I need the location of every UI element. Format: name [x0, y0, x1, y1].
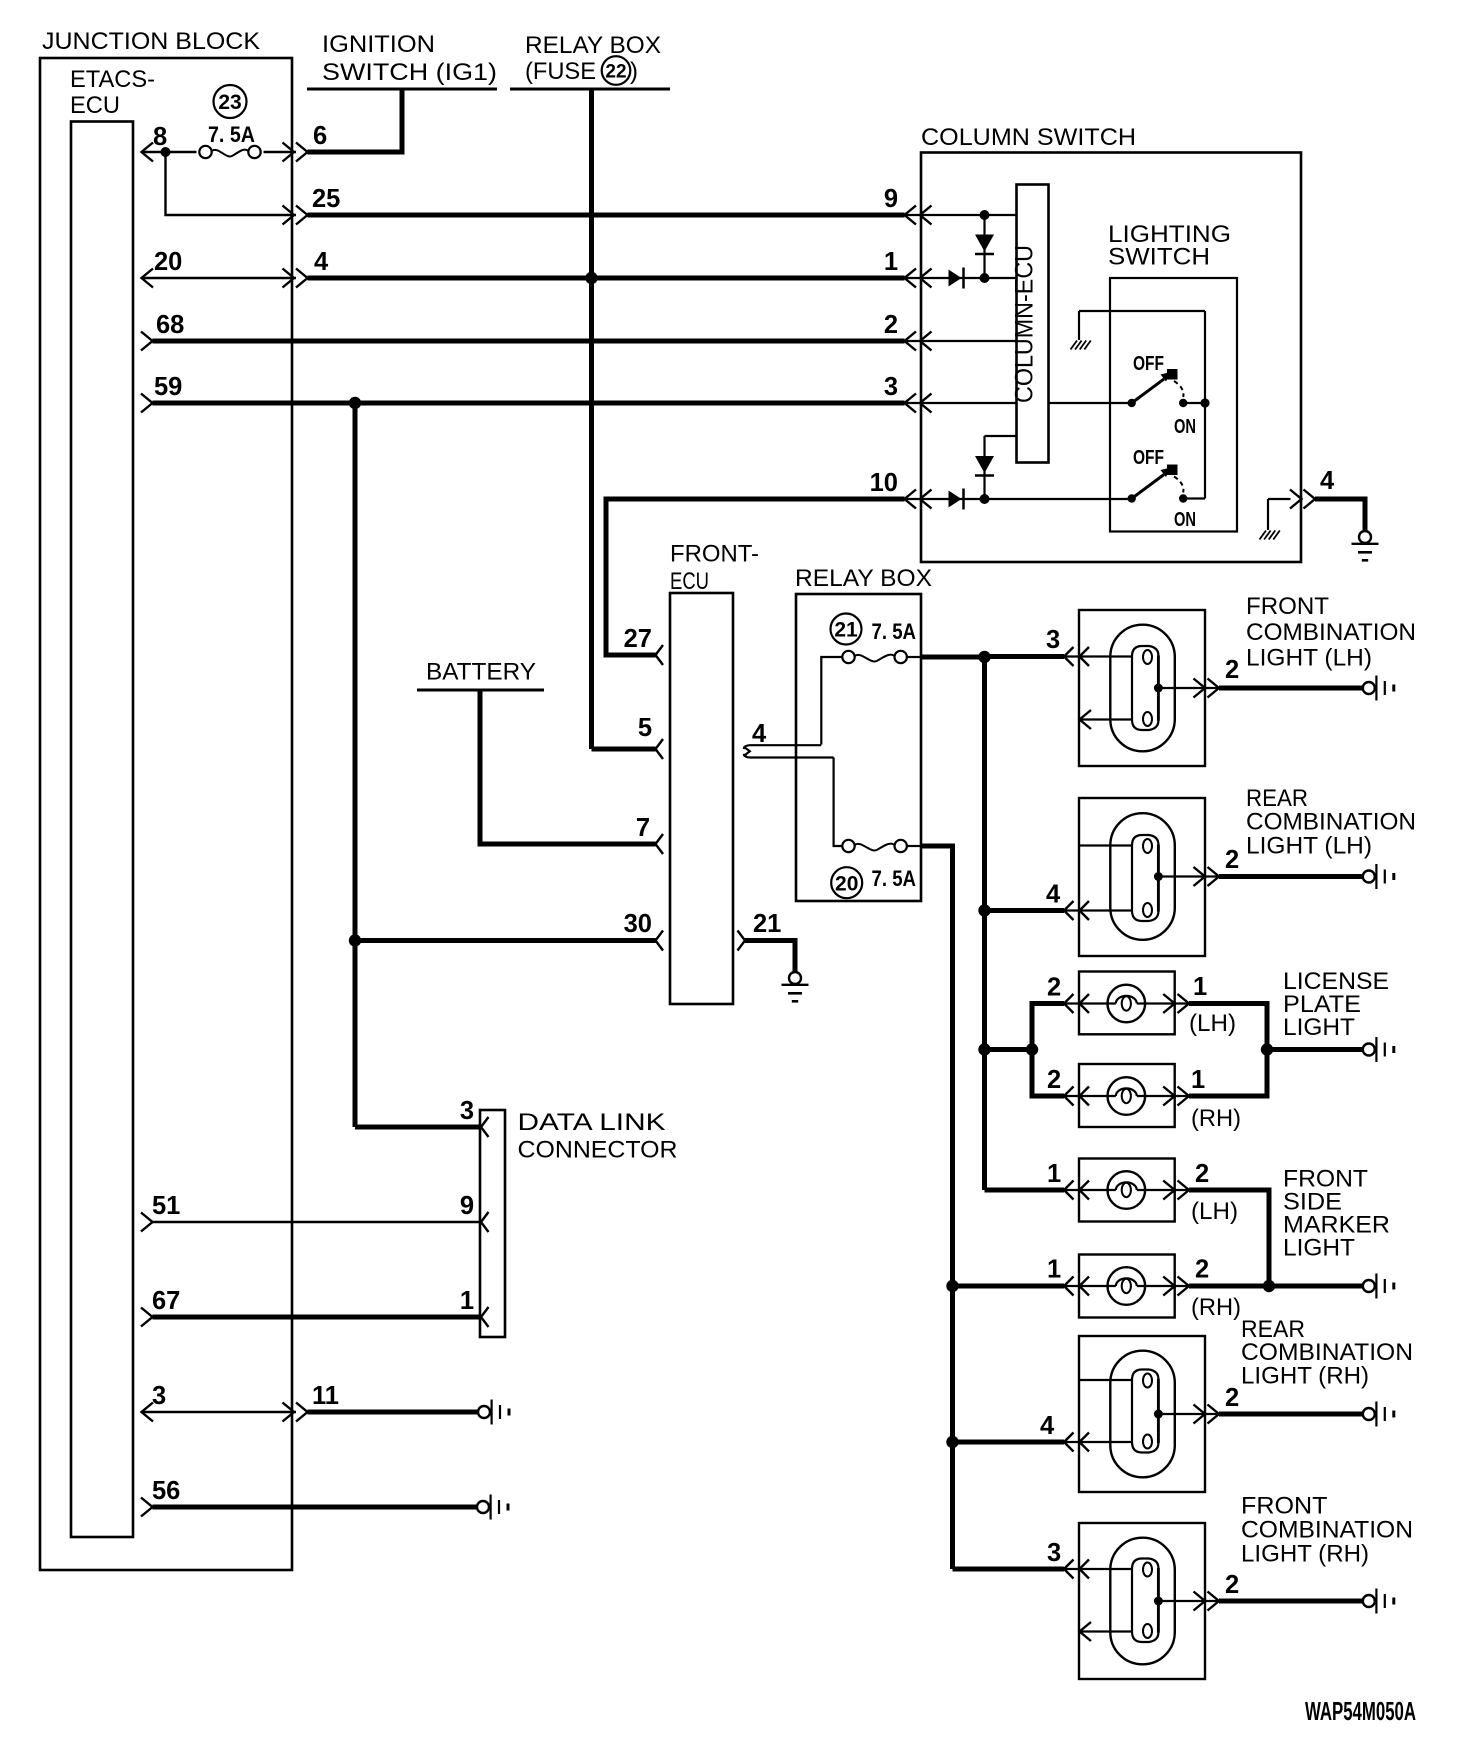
svg-text:11: 11 — [312, 1382, 339, 1410]
svg-text:3: 3 — [152, 1382, 166, 1410]
svg-text:COMBINATION: COMBINATION — [1241, 1517, 1413, 1544]
svg-text:30: 30 — [624, 910, 652, 938]
svg-text:2: 2 — [1225, 1571, 1239, 1599]
svg-text:LIGHT: LIGHT — [1283, 1235, 1355, 1262]
svg-text:1: 1 — [884, 248, 898, 276]
internal ground G1 — [1078, 311, 1080, 340]
svg-text:2: 2 — [884, 311, 898, 339]
svg-text:LIGHT: LIGHT — [1283, 1014, 1355, 1041]
svg-text:(RH): (RH) — [1191, 1105, 1241, 1132]
svg-text:7. 5A: 7. 5A — [872, 866, 917, 891]
fuse 20 7.5A — [831, 867, 862, 898]
svg-text:(FUSE: (FUSE — [525, 58, 596, 85]
license LH lamp — [1032, 1004, 1064, 1050]
svg-text:68: 68 — [156, 311, 184, 339]
svg-text:LIGHT (LH): LIGHT (LH) — [1246, 645, 1372, 672]
svg-text:CONNECTOR: CONNECTOR — [518, 1137, 678, 1164]
svg-text:3: 3 — [884, 373, 898, 401]
svg-text:ECU: ECU — [670, 568, 709, 595]
svg-text:1: 1 — [1193, 973, 1207, 1001]
svg-text:COLUMN SWITCH: COLUMN SWITCH — [921, 124, 1136, 151]
svg-text:10: 10 — [870, 469, 898, 497]
svg-text:6: 6 — [313, 122, 327, 150]
license RH lamp — [1032, 1050, 1064, 1097]
svg-text:21: 21 — [753, 910, 781, 938]
pin 10 to front-ecu 27 wire — [606, 499, 905, 655]
svg-text:FRONT-: FRONT- — [670, 541, 759, 568]
svg-text:7. 5A: 7. 5A — [872, 619, 917, 644]
svg-text:59: 59 — [154, 373, 182, 401]
svg-text:4: 4 — [1040, 1412, 1055, 1440]
relay box fuse22 drop wire — [589, 89, 594, 749]
svg-text:1: 1 — [460, 1287, 474, 1315]
pin 4 ground tap — [1260, 531, 1267, 540]
svg-text:1: 1 — [1047, 1160, 1061, 1188]
front side marker RH — [946, 1280, 958, 1292]
svg-text:8: 8 — [153, 123, 167, 151]
pin 59 trunk down / pin 30 wire — [349, 934, 361, 946]
svg-text:(LH): (LH) — [1189, 1010, 1236, 1037]
svg-text:21: 21 — [834, 619, 858, 642]
svg-text:(RH): (RH) — [1191, 1294, 1241, 1321]
svg-text:56: 56 — [152, 1477, 180, 1505]
svg-text:3: 3 — [1047, 1539, 1061, 1567]
svg-text:22: 22 — [605, 61, 626, 82]
svg-text:OFF: OFF — [1133, 447, 1164, 469]
svg-text:COMBINATION: COMBINATION — [1246, 809, 1416, 836]
svg-text:WAP54M050A: WAP54M050A — [1305, 1698, 1416, 1726]
svg-text:RELAY BOX: RELAY BOX — [525, 32, 661, 59]
svg-text:ON: ON — [1174, 509, 1196, 531]
svg-text:25: 25 — [312, 185, 340, 213]
fuse 23 7.5A — [214, 85, 247, 118]
svg-text:): ) — [630, 58, 638, 85]
svg-text:BATTERY: BATTERY — [426, 659, 536, 686]
fuse 20 output wire / trunk B — [907, 845, 921, 847]
svg-text:2: 2 — [1225, 846, 1239, 874]
fuse 21 output wire / trunk A — [907, 656, 921, 658]
svg-text:2: 2 — [1195, 1160, 1209, 1188]
svg-text:5: 5 — [638, 714, 652, 742]
svg-text:ON: ON — [1174, 416, 1196, 438]
svg-text:FRONT: FRONT — [1241, 1493, 1328, 1520]
svg-text:23: 23 — [218, 91, 241, 114]
svg-text:20: 20 — [835, 872, 858, 895]
trunk to DLC pin 3 — [353, 403, 358, 1127]
svg-text:27: 27 — [624, 625, 652, 653]
column-ecu — [1017, 185, 1049, 463]
pin 4 wire to body ground — [1315, 499, 1365, 531]
svg-text:20: 20 — [154, 248, 182, 276]
svg-text:2: 2 — [1047, 974, 1061, 1002]
svg-text:67: 67 — [152, 1287, 180, 1315]
svg-text:(LH): (LH) — [1191, 1198, 1238, 1225]
svg-text:RELAY BOX: RELAY BOX — [795, 565, 932, 592]
svg-text:DATA LINK: DATA LINK — [518, 1109, 666, 1136]
diode D3 branch — [983, 436, 985, 499]
svg-text:SWITCH (IG1): SWITCH (IG1) — [322, 59, 497, 86]
svg-text:COMBINATION: COMBINATION — [1246, 619, 1416, 646]
svg-text:1: 1 — [1191, 1066, 1205, 1094]
front side marker LH — [985, 1188, 1065, 1193]
svg-text:LIGHT (RH): LIGHT (RH) — [1241, 1363, 1369, 1390]
svg-text:3: 3 — [460, 1097, 474, 1125]
fuse 21 7.5A — [831, 614, 862, 645]
svg-text:SWITCH: SWITCH — [1108, 244, 1210, 271]
svg-text:51: 51 — [152, 1192, 180, 1220]
svg-text:2: 2 — [1047, 1066, 1061, 1094]
svg-text:9: 9 — [460, 1192, 474, 1220]
svg-text:1: 1 — [1047, 1256, 1061, 1284]
svg-text:2: 2 — [1195, 1256, 1209, 1284]
svg-text:ECU: ECU — [70, 92, 120, 119]
svg-text:7. 5A: 7. 5A — [208, 122, 255, 147]
pin 25 wire — [166, 152, 297, 215]
svg-text:9: 9 — [884, 185, 898, 213]
diode D1 — [975, 235, 994, 252]
svg-text:2: 2 — [1225, 1384, 1239, 1412]
svg-text:COLUMN-ECU: COLUMN-ECU — [1011, 245, 1039, 403]
svg-text:4: 4 — [752, 720, 767, 748]
svg-text:ETACS-: ETACS- — [70, 66, 155, 93]
svg-text:LIGHT (RH): LIGHT (RH) — [1241, 1541, 1369, 1568]
svg-text:LIGHT (LH): LIGHT (LH) — [1246, 833, 1372, 860]
svg-text:4: 4 — [1046, 881, 1061, 909]
svg-text:IGNITION: IGNITION — [322, 31, 435, 58]
svg-text:FRONT: FRONT — [1246, 593, 1329, 620]
svg-text:JUNCTION BLOCK: JUNCTION BLOCK — [42, 28, 260, 55]
svg-text:2: 2 — [1225, 656, 1239, 684]
svg-text:4: 4 — [1320, 467, 1335, 495]
svg-text:7: 7 — [636, 814, 650, 842]
battery wire to pin 7 — [480, 690, 656, 844]
svg-text:4: 4 — [314, 248, 329, 276]
svg-text:3: 3 — [1046, 626, 1060, 654]
svg-text:OFF: OFF — [1133, 353, 1164, 375]
